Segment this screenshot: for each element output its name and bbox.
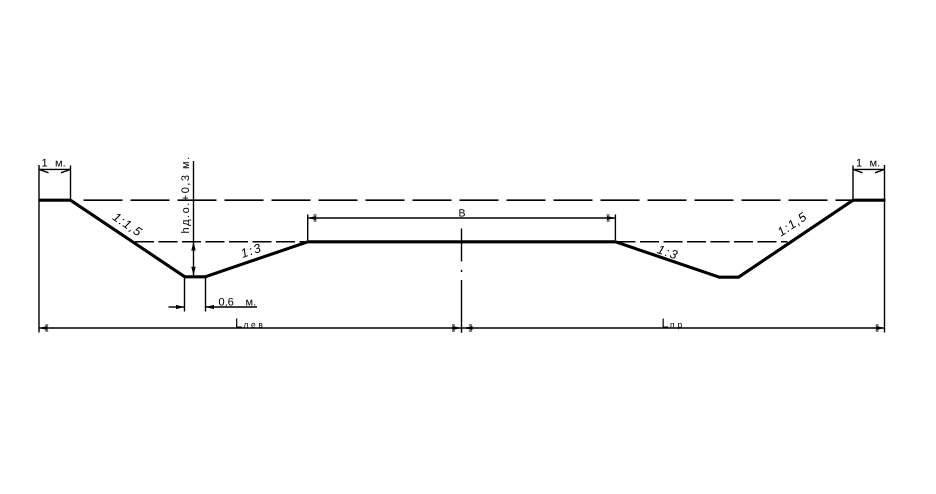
ditch depth arrow up xyxy=(191,242,195,251)
subgrade level dashed line left xyxy=(134,241,307,243)
svg-text:L: L xyxy=(235,315,242,330)
svg-text:м.: м. xyxy=(55,158,66,170)
ditch width arrow right xyxy=(206,305,215,309)
svg-text:лев: лев xyxy=(244,319,266,329)
roadway width dimension extension line right xyxy=(614,215,616,241)
left inner ditch slope 1:3 xyxy=(205,242,308,277)
right inner ditch slope 1:3 xyxy=(616,242,720,277)
ditch width extension line right xyxy=(205,278,207,312)
roadway subgrade top line xyxy=(308,240,616,243)
right outer boundary extension line xyxy=(884,165,886,333)
ditch depth arrow down xyxy=(191,267,195,276)
bottom dimension arrow far left xyxy=(39,326,48,330)
svg-text:1: 1 xyxy=(856,158,862,170)
bottom dimension center arrow pointing left xyxy=(464,326,473,330)
roadway width dimension extension line left xyxy=(307,215,309,241)
ground level dashed line xyxy=(84,199,854,201)
right 1m dimension extension line xyxy=(852,166,854,201)
svg-text:L: L xyxy=(662,315,669,330)
right 1m dimension line xyxy=(853,168,885,170)
bottom dimension center arrow pointing right xyxy=(452,326,461,330)
overall bottom dimension line xyxy=(39,327,885,329)
ditch depth dimension line vertical xyxy=(193,161,195,276)
svg-text:В: В xyxy=(458,208,465,220)
roadway width arrow right xyxy=(607,216,616,220)
bottom dimension arrow far right xyxy=(876,326,885,330)
right ditch bottom xyxy=(719,276,740,279)
road centerline dash-dot: upper dash xyxy=(461,229,463,262)
right natural ground thick line xyxy=(853,199,886,202)
svg-text:1: 1 xyxy=(42,158,48,170)
road centerline dash-dot: lower dash xyxy=(461,280,463,333)
ditch width arrow left xyxy=(176,305,185,309)
left natural ground thick line xyxy=(39,199,71,202)
left 1m dimension arrow left xyxy=(39,169,49,172)
left outer ditch slope 1:1.5 xyxy=(71,200,185,277)
left 1m dimension arrow right xyxy=(61,169,71,172)
svg-text:0,6: 0,6 xyxy=(219,297,234,309)
left outer boundary extension line xyxy=(38,165,40,333)
ditch width extension line left xyxy=(184,278,186,312)
ditch width dimension line left tail xyxy=(169,306,185,308)
right 1m dimension arrow left xyxy=(853,169,863,172)
right outer ditch slope 1:1.5 xyxy=(739,200,854,277)
ditch width dimension line right tail xyxy=(206,306,258,308)
road centerline dash-dot: dot xyxy=(461,270,463,272)
left 1m dimension extension line xyxy=(70,166,72,201)
roadway width dimension line xyxy=(308,217,616,219)
roadway width arrow left xyxy=(308,216,317,220)
left ditch bottom xyxy=(184,275,206,278)
svg-text:hд.о.+0,3 м.: hд.о.+0,3 м. xyxy=(180,155,192,233)
right 1m dimension arrow right xyxy=(875,169,885,172)
svg-text:пр: пр xyxy=(670,319,685,329)
subgrade level dashed line right xyxy=(616,241,788,243)
svg-text:м.: м. xyxy=(246,297,257,309)
left 1m dimension line xyxy=(39,168,71,170)
svg-text:м.: м. xyxy=(870,158,881,170)
